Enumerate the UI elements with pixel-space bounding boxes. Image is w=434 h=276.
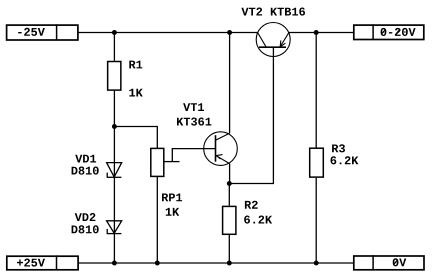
label +25V <box>17 259 45 267</box>
label RP1 value 1K <box>166 208 180 216</box>
node bottom rail R3 junction <box>314 261 319 266</box>
wire top rail left <box>78 32 258 34</box>
wire wiper to VT1 base <box>172 149 215 162</box>
wire RP1 bottom lead <box>156 177 158 263</box>
label R3 value 6.2K <box>331 156 359 164</box>
wire R3 bottom lead <box>315 178 317 263</box>
wire left vertical (R1/VD1/VD2 chain) <box>113 33 115 61</box>
resistor R2 <box>223 206 236 234</box>
zener diode VD1 <box>107 163 122 178</box>
wire R2 bottom lead <box>228 235 230 263</box>
label VD1 value D810 <box>72 167 99 175</box>
label 0V <box>393 258 407 266</box>
transistor VT1 KT361 <box>204 132 238 166</box>
wire top rail right <box>289 32 353 34</box>
label R1 <box>129 61 142 69</box>
node top rail R3 junction <box>314 30 319 35</box>
label RP1 <box>162 194 182 202</box>
label 0-20V <box>381 28 416 36</box>
label R3 <box>332 144 345 152</box>
node bottom rail VD2 junction <box>112 261 117 266</box>
wire branch to RP1 top <box>114 127 157 149</box>
node top rail VT1 collector junction <box>227 30 232 35</box>
resistor R3 <box>310 148 324 177</box>
label R1 value 1K <box>129 89 143 97</box>
wire bottom rail <box>79 262 354 264</box>
label R2 value 6.2K <box>244 216 272 224</box>
node VT1 emitter / R2 / VT2 base junction <box>227 181 232 186</box>
label VT1 <box>183 103 204 111</box>
label -25V <box>18 28 45 36</box>
label slashed zeros <box>381 29 400 265</box>
label VD1 <box>75 155 96 163</box>
label VD2 value D810 <box>72 225 99 233</box>
node RP1 branch junction <box>112 124 117 129</box>
connector -25V <box>7 24 78 40</box>
zener diode VD2 <box>107 221 122 234</box>
wire R1 bottom to VD chain <box>113 91 115 263</box>
node top rail R1 junction <box>112 30 117 35</box>
resistor R1 <box>108 62 121 91</box>
connector 0-20V <box>354 24 424 39</box>
wire emitter junction to VT2 base <box>229 47 273 183</box>
wire RP1 wiper tick <box>164 161 179 163</box>
node bottom rail RP1 junction <box>155 261 160 266</box>
wire R2 top lead <box>228 184 230 206</box>
wire VT1 emitter down <box>229 164 231 184</box>
connector +25V <box>7 255 78 269</box>
node bottom rail R2 junction <box>227 261 232 266</box>
label VD2 <box>75 213 96 221</box>
label R2 <box>245 201 258 209</box>
transistor VT2 KTB16 <box>256 23 290 57</box>
wire R3 top lead <box>315 33 317 148</box>
wire VT1 collector to top rail <box>229 33 231 134</box>
label VT2 KTB16 <box>241 8 305 16</box>
label KT361 <box>177 118 211 126</box>
potentiometer RP1 <box>151 148 164 176</box>
connector 0V <box>354 255 424 270</box>
